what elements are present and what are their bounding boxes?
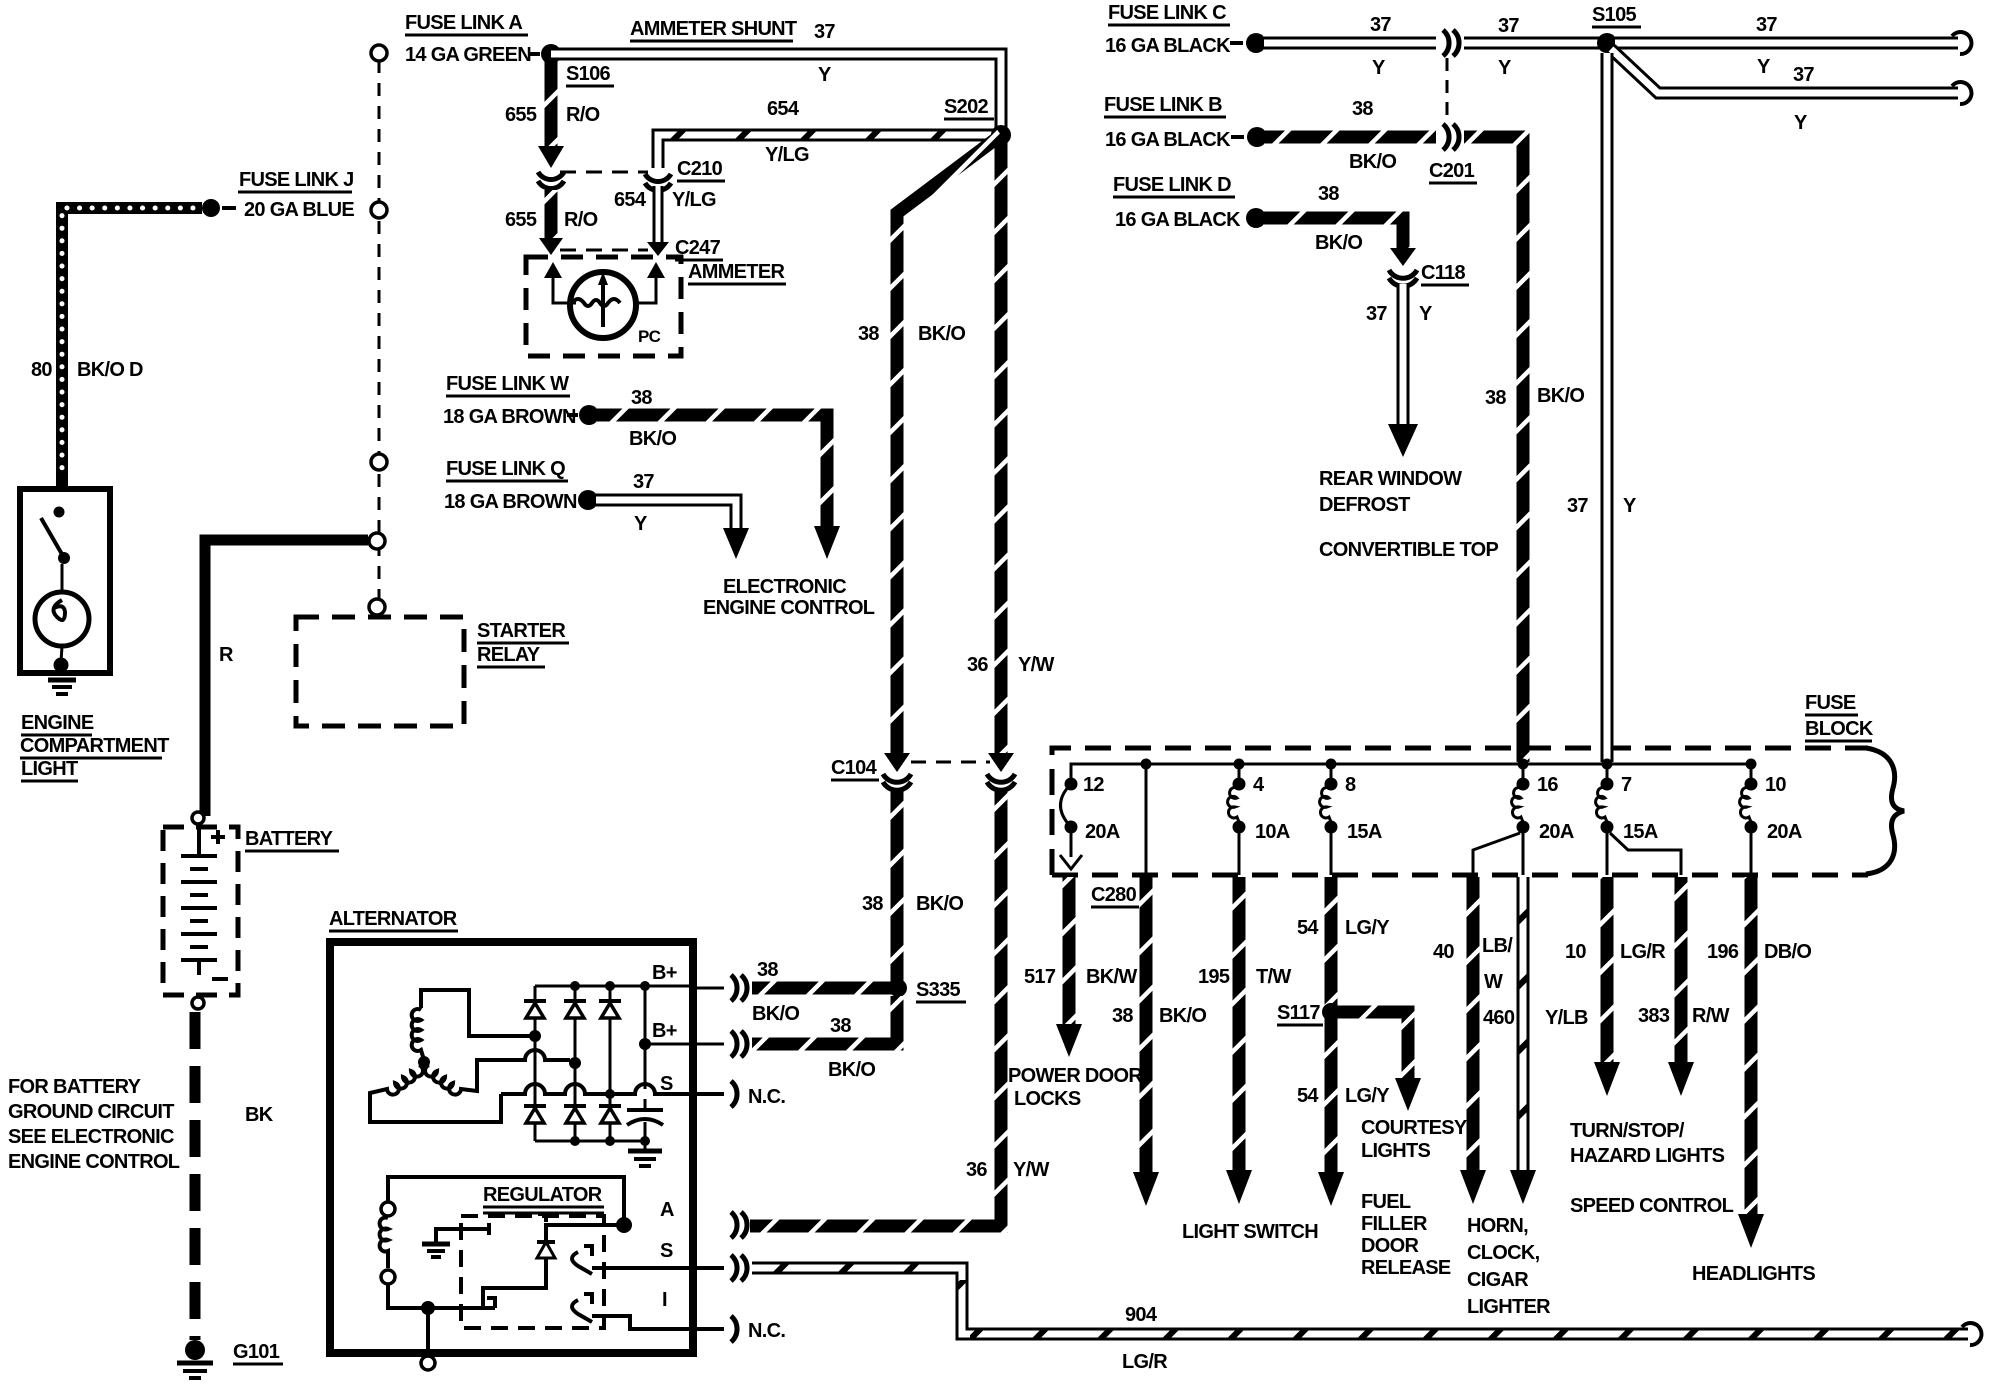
node: open circle mid dashed feed xyxy=(371,454,387,470)
connector C210 (right half on 654 wire) xyxy=(645,174,671,191)
svg-text:Y: Y xyxy=(1757,56,1771,78)
svg-text:20 GA BLUE: 20 GA BLUE xyxy=(244,199,354,221)
regulator: zener diode branch xyxy=(538,1214,624,1240)
svg-text:196: 196 xyxy=(1707,941,1739,963)
svg-text:54: 54 xyxy=(1297,1085,1319,1107)
svg-text:FUSE LINK A: FUSE LINK A xyxy=(405,12,522,34)
svg-text:Y/W: Y/W xyxy=(1013,1159,1049,1181)
svg-text:BK/O: BK/O xyxy=(1537,385,1584,407)
node: fuse link W terminal dot xyxy=(579,405,599,425)
svg-text:7: 7 xyxy=(1621,774,1632,796)
svg-text:904: 904 xyxy=(1125,1304,1158,1326)
svg-text:BK/O: BK/O xyxy=(918,323,965,345)
svg-text:15A: 15A xyxy=(1623,821,1658,843)
svg-text:20A: 20A xyxy=(1767,821,1802,843)
svg-text:LG/R: LG/R xyxy=(1122,1351,1168,1373)
regulator: bottom rail and transistor to I xyxy=(421,1301,435,1315)
ground: alternator internal ground xyxy=(644,1141,647,1149)
wire 54 LG/Y: fuse 8 output to S117 xyxy=(1325,877,1338,1174)
wire 38 BK/O: overlay crossing block edge xyxy=(1517,733,1530,762)
svg-text:80: 80 xyxy=(31,359,52,381)
stator: phase 3 coil and link xyxy=(425,1050,570,1095)
svg-text:CONVERTIBLE TOP: CONVERTIBLE TOP xyxy=(1319,539,1499,561)
svg-text:16 GA BLACK: 16 GA BLACK xyxy=(1105,35,1231,57)
svg-text:Y: Y xyxy=(1372,57,1386,79)
svg-text:BK/O: BK/O xyxy=(1159,1005,1206,1027)
wire 38 BK/O: from C104 down to splice S335 xyxy=(891,790,904,988)
svg-text:38: 38 xyxy=(1352,98,1373,120)
svg-text:LIGHT: LIGHT xyxy=(21,758,78,780)
node: fuse link C terminal dot xyxy=(1246,33,1266,53)
svg-text:BATTERY: BATTERY xyxy=(245,828,334,850)
node: fuse link Q terminal dot xyxy=(578,490,598,510)
svg-text:LIGHT SWITCH: LIGHT SWITCH xyxy=(1182,1221,1318,1243)
svg-text:N.C.: N.C. xyxy=(748,1086,785,1108)
wire 195 T/W: fuse 4 output xyxy=(1233,877,1246,1172)
node: fuse link B terminal dot xyxy=(1247,127,1267,147)
svg-text:S117: S117 xyxy=(1277,1002,1320,1024)
node: diode column junctions on B+ line xyxy=(570,981,580,991)
wire 37 Y: S105 lower branch to right edge xyxy=(1611,49,1958,93)
fuse F4 10A xyxy=(1238,764,1241,784)
svg-text:BK/O: BK/O xyxy=(1315,232,1362,254)
svg-text:20A: 20A xyxy=(1539,821,1574,843)
svg-text:COMPARTMENT: COMPARTMENT xyxy=(20,735,169,757)
svg-text:38: 38 xyxy=(1112,1005,1133,1027)
svg-text:LG/Y: LG/Y xyxy=(1345,917,1390,939)
svg-text:R/W: R/W xyxy=(1692,1005,1730,1027)
node: fuse link J terminal dot xyxy=(202,199,220,217)
connector C201 (on 37 Y wire) xyxy=(1443,30,1459,56)
fuse block: right brace edge xyxy=(1866,748,1904,874)
svg-text:BK/O: BK/O xyxy=(1349,151,1396,173)
svg-text:16 GA BLACK: 16 GA BLACK xyxy=(1115,209,1241,231)
svg-text:460: 460 xyxy=(1483,1007,1515,1029)
svg-text:LG/Y: LG/Y xyxy=(1345,1085,1390,1107)
node: open circle where battery R wire joins xyxy=(369,533,385,549)
engine compartment light: bulb L1 xyxy=(35,592,89,646)
svg-text:S: S xyxy=(660,1073,673,1095)
svg-text:517: 517 xyxy=(1024,966,1056,988)
svg-text:FOR BATTERY: FOR BATTERY xyxy=(8,1076,142,1098)
wire: dashed connector interface C104 xyxy=(911,761,990,764)
connector C104 (half on 38 BK/O wire) xyxy=(883,774,911,790)
node: open circle at fuse link J level xyxy=(371,202,387,218)
wire 654 Y/LG: thin double segment down to C247 xyxy=(653,186,664,243)
wire 655 R/O: upper segment from fuse link A dot down xyxy=(545,60,558,150)
svg-text:37: 37 xyxy=(1756,14,1777,36)
wire: dashed connector interface C201 xyxy=(1446,58,1449,122)
svg-text:G101: G101 xyxy=(233,1341,280,1363)
fuse F7 15A xyxy=(1601,778,1614,791)
svg-text:195: 195 xyxy=(1198,966,1230,988)
diode D2 (top row) xyxy=(574,986,577,1001)
svg-text:ENGINE CONTROL: ENGINE CONTROL xyxy=(703,597,875,619)
svg-text:FUSE LINK J: FUSE LINK J xyxy=(239,169,354,191)
wire 38 BK/O: fuse link B to C201 xyxy=(1265,131,1436,144)
svg-text:S202: S202 xyxy=(944,96,988,118)
svg-text:36: 36 xyxy=(967,654,988,676)
fuse block: supply bus xyxy=(1071,764,1751,779)
svg-text:40: 40 xyxy=(1433,941,1454,963)
svg-text:REGULATOR: REGULATOR xyxy=(483,1184,603,1206)
svg-text:FUSE LINK D: FUSE LINK D xyxy=(1113,174,1231,196)
ammeter: dashed case xyxy=(526,257,681,356)
svg-text:654: 654 xyxy=(767,98,800,120)
svg-text:CIGAR: CIGAR xyxy=(1467,1269,1529,1291)
node: open circle above starter relay xyxy=(369,599,385,615)
svg-text:R/O: R/O xyxy=(566,104,600,126)
svg-text:15A: 15A xyxy=(1347,821,1382,843)
regulator: output transistor to S xyxy=(572,1246,592,1274)
ammeter M1: meter circle with coil and needle xyxy=(570,272,636,338)
wire R: thick battery positive feed to starter relay line xyxy=(205,540,368,816)
node: fuse link A terminal dot xyxy=(541,44,561,64)
wire 37 Y: ammeter shunt double wire to S202 xyxy=(551,54,1001,130)
wire 38 BK/O: fuse link W feed to EEC xyxy=(597,415,827,528)
wire: fuse 7 fan-out xyxy=(1610,833,1681,875)
svg-text:STARTER: STARTER xyxy=(477,620,566,642)
svg-text:14 GA GREEN: 14 GA GREEN xyxy=(405,44,531,66)
svg-text:B+: B+ xyxy=(652,1020,677,1042)
svg-text:8: 8 xyxy=(1345,774,1356,796)
svg-text:FILLER: FILLER xyxy=(1361,1213,1428,1235)
engine compartment light: switch xyxy=(54,507,65,518)
svg-text:ENGINE: ENGINE xyxy=(21,712,94,734)
connector C210 (left half on 655 wire) xyxy=(538,172,564,189)
svg-text:37: 37 xyxy=(1370,14,1391,36)
regulator: internal ground xyxy=(436,1223,489,1242)
wire 37 Y: C201 to splice S105 xyxy=(1464,37,1600,50)
svg-text:Y: Y xyxy=(818,64,832,86)
svg-text:37: 37 xyxy=(1366,303,1387,325)
node: open circle battery negative xyxy=(192,997,204,1009)
svg-text:Y: Y xyxy=(634,513,648,535)
svg-text:W: W xyxy=(1484,971,1503,993)
fuse F8 15A xyxy=(1330,764,1333,784)
svg-text:BLOCK: BLOCK xyxy=(1805,718,1874,740)
diode D6 (bottom row) xyxy=(599,1104,621,1108)
starter relay: dashed box xyxy=(296,617,464,726)
svg-text:HAZARD LIGHTS: HAZARD LIGHTS xyxy=(1570,1145,1725,1167)
svg-text:10: 10 xyxy=(1765,774,1786,796)
rotor field coil with brushes xyxy=(381,1202,395,1216)
fuse F10 20A xyxy=(1750,764,1753,784)
wire 54 LG/Y: S117 branch to courtesy lights xyxy=(1331,1012,1408,1080)
wire 38 BK/O: B+ 1 to splice S335 xyxy=(752,982,892,995)
wire: dashed feed line to starter relay (vertical, x=379) xyxy=(378,60,381,600)
svg-text:Y/W: Y/W xyxy=(1018,654,1054,676)
capacitor C column xyxy=(644,986,647,1044)
diode D5 (bottom row) xyxy=(564,1104,586,1108)
svg-text:DOOR: DOOR xyxy=(1361,1235,1419,1257)
svg-text:Y/LB: Y/LB xyxy=(1545,1007,1588,1029)
fuse F16 20A xyxy=(1517,778,1530,791)
engine compartment light: housing box xyxy=(20,489,110,673)
wire 517 BK/W: power door locks feed xyxy=(1063,877,1076,1026)
wire 37 Y: fuse link Q feed to EEC xyxy=(596,500,736,530)
svg-text:RELAY: RELAY xyxy=(477,644,541,666)
svg-text:655: 655 xyxy=(505,209,537,231)
svg-text:Y: Y xyxy=(1419,303,1433,325)
svg-text:LB/: LB/ xyxy=(1482,935,1513,957)
svg-text:C104: C104 xyxy=(831,757,878,779)
wire 37 Y: S105 down to fuse block fuse 7 xyxy=(1601,53,1614,762)
svg-text:10A: 10A xyxy=(1255,821,1290,843)
svg-text:C280: C280 xyxy=(1091,884,1137,906)
fuse F12 20A xyxy=(1065,778,1078,791)
regulator: dashed box xyxy=(461,1216,604,1328)
connector C118 xyxy=(1389,270,1417,286)
wire 38 BK/O: from S202 diagonal down to C104 xyxy=(897,135,1001,755)
svg-text:BK/O: BK/O xyxy=(828,1059,875,1081)
svg-text:SPEED CONTROL: SPEED CONTROL xyxy=(1570,1195,1734,1217)
svg-text:LG/R: LG/R xyxy=(1620,941,1666,963)
svg-text:N.C.: N.C. xyxy=(748,1320,785,1342)
wire BK: dashed battery ground wire to G101 xyxy=(190,1012,201,1340)
svg-text:38: 38 xyxy=(830,1015,851,1037)
node: S202 junction dot xyxy=(991,125,1011,145)
svg-text:38: 38 xyxy=(862,893,883,915)
wire 37 Y: C118 down to rear window defrost xyxy=(1397,284,1410,426)
svg-text:20A: 20A xyxy=(1085,821,1120,843)
svg-text:10: 10 xyxy=(1565,941,1586,963)
stator: phase 1 coil and wiring xyxy=(421,990,530,1036)
svg-text:37: 37 xyxy=(1567,495,1588,517)
svg-text:Y: Y xyxy=(1498,57,1512,79)
svg-text:REAR WINDOW: REAR WINDOW xyxy=(1319,468,1462,490)
connector: B+ 2 plug xyxy=(731,1031,747,1057)
battery: plus terminal xyxy=(211,830,225,844)
svg-text:FUSE: FUSE xyxy=(1805,692,1856,714)
svg-text:12: 12 xyxy=(1083,774,1104,796)
svg-text:FUEL: FUEL xyxy=(1361,1191,1411,1213)
node: bus taps xyxy=(1141,759,1152,770)
wire 38 BK/O: light switch feed xyxy=(1145,764,1148,875)
svg-text:AMMETER SHUNT: AMMETER SHUNT xyxy=(630,18,797,40)
battery: minus terminal xyxy=(212,977,228,981)
wire 36 Y/W: from S202 down to alternator A terminal xyxy=(995,141,1008,755)
wire 654 Y/LG: hatched double wire from C210 to S202 xyxy=(658,135,1001,168)
svg-text:A: A xyxy=(660,1199,674,1221)
svg-text:FUSE LINK Q: FUSE LINK Q xyxy=(446,458,565,480)
svg-text:38: 38 xyxy=(1485,387,1506,409)
node: open circle on dashed feed top xyxy=(371,45,387,61)
svg-text:S105: S105 xyxy=(1592,4,1636,26)
svg-text:S106: S106 xyxy=(566,63,610,85)
svg-text:654: 654 xyxy=(614,189,647,211)
node: A junction dot xyxy=(616,1217,632,1233)
svg-text:C210: C210 xyxy=(677,158,723,180)
wire 196 DB/O: headlights feed xyxy=(1745,877,1758,1216)
svg-text:T/W: T/W xyxy=(1256,966,1291,988)
svg-text:FUSE LINK C: FUSE LINK C xyxy=(1108,2,1226,24)
hook at 904 wire end xyxy=(1962,1323,1981,1345)
wire 655 R/O: lower segment to ammeter xyxy=(545,190,558,240)
svg-text:Y/LG: Y/LG xyxy=(672,189,716,211)
wire: field feed from A terminal xyxy=(388,1177,624,1225)
svg-text:TURN/STOP/: TURN/STOP/ xyxy=(1570,1120,1685,1142)
svg-text:37: 37 xyxy=(814,21,835,43)
wire: fuse 16 fan-out xyxy=(1473,833,1520,875)
svg-text:C118: C118 xyxy=(1421,262,1465,284)
svg-text:COURTESY: COURTESY xyxy=(1361,1117,1468,1139)
svg-text:655: 655 xyxy=(505,104,537,126)
svg-text:BK/O: BK/O xyxy=(916,893,963,915)
diode D4 (bottom row) xyxy=(524,1104,546,1108)
wire 37 Y: S105 to right edge xyxy=(1615,37,1958,50)
fuse block: dashed outline xyxy=(1052,748,1868,875)
node: fuse link D terminal dot xyxy=(1246,208,1266,228)
svg-text:Y: Y xyxy=(1794,112,1808,134)
svg-text:ALTERNATOR: ALTERNATOR xyxy=(329,908,458,930)
svg-text:ELECTRONIC: ELECTRONIC xyxy=(723,576,846,598)
svg-text:BK/O: BK/O xyxy=(629,428,676,450)
splice S117 xyxy=(1322,1003,1340,1021)
wire: dashed connector interface C247 xyxy=(560,249,648,252)
wire 38 BK/O: C201 down to fuse block fuse 16 xyxy=(1464,137,1523,762)
svg-text:I: I xyxy=(662,1289,667,1311)
svg-text:S335: S335 xyxy=(916,979,960,1001)
svg-text:383: 383 xyxy=(1638,1005,1670,1027)
wire 37 Y: overlay crossing block edge xyxy=(1601,733,1614,762)
stator: Y junction xyxy=(418,1056,430,1068)
svg-text:R: R xyxy=(219,644,234,666)
connector C104 (half on 36 Y/W wire) xyxy=(987,774,1015,790)
svg-text:CLOCK,: CLOCK, xyxy=(1467,1242,1540,1264)
svg-text:HORN,: HORN, xyxy=(1467,1215,1528,1237)
battery: dashed housing xyxy=(163,827,238,995)
wire 37 Y: fuse link C to connector C201 xyxy=(1264,37,1436,50)
svg-text:DB/O: DB/O xyxy=(1764,941,1811,963)
wire 38 BK/O: fuse link D down to C118 xyxy=(1264,218,1403,250)
svg-text:38: 38 xyxy=(631,387,652,409)
svg-text:BK/W: BK/W xyxy=(1086,966,1137,988)
svg-text:GROUND CIRCUIT: GROUND CIRCUIT xyxy=(8,1101,174,1123)
ammeter: lead arrows into connector C247 xyxy=(553,278,576,303)
wire 460 Y/LB: horn clock lighter feed 2 xyxy=(1517,877,1530,1172)
svg-text:FUSE LINK B: FUSE LINK B xyxy=(1104,94,1222,116)
connector: B+ 1 plug xyxy=(731,975,747,1001)
wire 904 LG/R: regulator S wire out to right edge xyxy=(752,1268,1968,1334)
svg-text:37: 37 xyxy=(633,471,654,493)
wire 38 BK/O: B+ 2 jog up to S335 xyxy=(752,996,897,1044)
svg-text:SEE ELECTRONIC: SEE ELECTRONIC xyxy=(8,1126,174,1148)
svg-text:BK/O: BK/O xyxy=(752,1003,799,1025)
svg-text:37: 37 xyxy=(1498,15,1519,37)
svg-text:RELEASE: RELEASE xyxy=(1361,1257,1451,1279)
wire 383 R/W: speed control feed xyxy=(1675,877,1688,1064)
wire: dashed connector interface C210 xyxy=(560,171,648,174)
svg-text:LIGHTER: LIGHTER xyxy=(1467,1296,1551,1318)
alternator case ground stub xyxy=(426,1308,430,1355)
svg-text:BK: BK xyxy=(245,1104,274,1126)
node: open circle battery positive xyxy=(192,812,204,824)
svg-text:BK/O D: BK/O D xyxy=(77,359,143,381)
ground G101 xyxy=(185,1340,205,1360)
svg-text:S: S xyxy=(660,1240,673,1262)
svg-text:38: 38 xyxy=(757,959,778,981)
alternator: B+ bus line (top) xyxy=(535,985,693,988)
ground: engine compartment light ground xyxy=(48,678,76,683)
wire 40 LB/W: horn clock lighter feed xyxy=(1467,877,1480,1172)
svg-text:LOCKS: LOCKS xyxy=(1014,1088,1081,1110)
svg-text:37: 37 xyxy=(1793,64,1814,86)
battery: cell plates xyxy=(197,825,201,856)
svg-text:36: 36 xyxy=(966,1159,987,1181)
svg-text:FUSE LINK W: FUSE LINK W xyxy=(446,373,569,395)
svg-text:DEFROST: DEFROST xyxy=(1319,494,1410,516)
svg-text:R/O: R/O xyxy=(564,209,598,231)
svg-text:HEADLIGHTS: HEADLIGHTS xyxy=(1692,1263,1815,1285)
svg-text:AMMETER: AMMETER xyxy=(688,261,785,283)
stator: phase 2 coil to diode column 2 xyxy=(370,1065,501,1122)
splice S335 xyxy=(889,979,907,997)
wire: fuse 12 output through C280 xyxy=(1070,833,1073,857)
wire 80 BK/O D: dotted wire from fuse link J to engine compartment light xyxy=(62,208,202,486)
svg-text:C201: C201 xyxy=(1429,160,1475,182)
svg-text:4: 4 xyxy=(1253,774,1265,796)
svg-text:38: 38 xyxy=(1318,183,1339,205)
svg-text:16: 16 xyxy=(1537,774,1558,796)
diode D1 (top row) xyxy=(534,986,537,1001)
svg-text:54: 54 xyxy=(1297,917,1319,939)
svg-text:LIGHTS: LIGHTS xyxy=(1361,1140,1430,1162)
svg-text:B+: B+ xyxy=(652,962,677,984)
svg-text:PC: PC xyxy=(638,327,661,346)
svg-text:18 GA BROWN: 18 GA BROWN xyxy=(444,491,577,513)
svg-text:ENGINE CONTROL: ENGINE CONTROL xyxy=(8,1151,180,1173)
svg-text:18 GA BROWN: 18 GA BROWN xyxy=(443,406,576,428)
svg-text:Y: Y xyxy=(1623,495,1637,517)
rectifier bottom bus xyxy=(535,1140,645,1143)
svg-text:38: 38 xyxy=(858,323,879,345)
svg-text:16 GA BLACK: 16 GA BLACK xyxy=(1105,129,1231,151)
connector C201 (on 38 BK/O wire) xyxy=(1443,124,1459,150)
wire 10 LG/R: turn stop hazard feed xyxy=(1601,877,1614,1064)
svg-text:POWER DOOR: POWER DOOR xyxy=(1008,1065,1143,1087)
svg-text:Y/LG: Y/LG xyxy=(765,144,809,166)
alternator: case xyxy=(330,942,693,1353)
diode D3 (top row) xyxy=(609,986,612,1001)
